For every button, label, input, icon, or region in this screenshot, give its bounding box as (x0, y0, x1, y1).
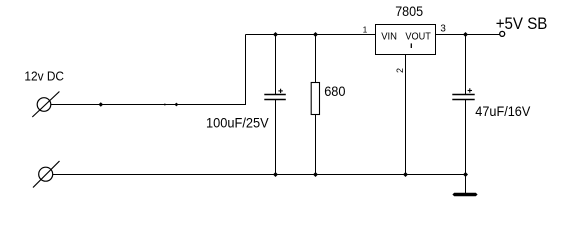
junction dot ground (463, 172, 468, 177)
capacitor C1 polarity plus (278, 89, 282, 93)
wire bottom rail (53, 174, 466, 176)
connector J2 (12v DC -) (33, 161, 60, 188)
terminal +5V SB open circle (500, 31, 505, 36)
junction dot R1 bottom (313, 172, 318, 177)
wire C2 bottom lead (465, 100, 467, 175)
svg-text:47uF/16V: 47uF/16V (475, 104, 531, 119)
svg-text:2: 2 (395, 68, 405, 73)
junction dot pin2 bottom (403, 172, 408, 177)
junction dot C2 top (463, 32, 468, 37)
svg-text:12v DC: 12v DC (24, 69, 64, 84)
svg-text:VOUT: VOUT (405, 31, 430, 42)
wire C2 top lead (465, 35, 467, 95)
svg-text:100uF/25V: 100uF/25V (206, 116, 269, 131)
wire C1 top lead (275, 35, 277, 95)
capacitor C2 polarity plus (468, 88, 472, 92)
capacitor C1 plates (264, 95, 286, 100)
svg-text:VIN: VIN (381, 31, 397, 42)
junction dot C1 bottom (273, 172, 278, 177)
wire top rail to U1 pin 1 (246, 34, 377, 36)
capacitor C2 plates (452, 95, 474, 100)
wire U1 pin 2 to bottom rail (405, 55, 407, 175)
svg-text:7805: 7805 (395, 4, 423, 19)
wire 12v DC input to corner (51, 104, 247, 106)
wire ground drop (465, 175, 467, 194)
op-amp U1 7805 regulator box (376, 25, 436, 55)
resistor R1 body (311, 83, 319, 115)
wire C1 bottom lead (275, 100, 277, 175)
junction tick on input wire (164, 103, 166, 106)
junction dot on input wire near corner (174, 103, 178, 107)
pin marker tick inside U1 (410, 43, 412, 48)
wire left vertical riser (245, 35, 247, 105)
wire R1 bottom lead (315, 115, 317, 175)
connector J1 (12v DC +) (32, 92, 59, 118)
junction dot C1 top (273, 32, 278, 37)
svg-text:+5V SB: +5V SB (496, 15, 548, 33)
ground symbol bar (452, 193, 477, 196)
svg-text:1: 1 (363, 25, 368, 35)
svg-text:680: 680 (324, 83, 345, 99)
junction dot R1 top (313, 32, 318, 37)
wire U1 pin 3 to +5V terminal (436, 34, 500, 36)
junction dot on input wire (98, 102, 103, 107)
svg-text:3: 3 (440, 24, 446, 35)
wire R1 top lead (315, 35, 317, 83)
